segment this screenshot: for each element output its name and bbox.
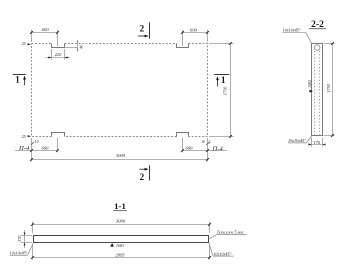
svg-text:25: 25: [22, 135, 26, 139]
svg-text:600: 600: [42, 27, 50, 32]
svg-text:220: 220: [55, 52, 62, 57]
section mark 1 right arrow: [217, 79, 219, 87]
dim 2995 line: [33, 257, 210, 259]
svg-text:10х10х45°: 10х10х45°: [283, 28, 301, 33]
section mark 1 left arrow: [24, 78, 26, 85]
svg-text:3000: 3000: [116, 219, 126, 224]
svg-text:1750: 1750: [223, 86, 228, 95]
section mark 2 bottom tick: [149, 165, 151, 180]
dim 600 bottom-left line: [15, 150, 58, 152]
svg-text:10: 10: [35, 140, 39, 144]
svg-text:1683: 1683: [116, 243, 124, 248]
svg-text:П-4: П-4: [212, 145, 224, 152]
svg-text:3000: 3000: [116, 153, 126, 158]
dim 40 notch depth: [65, 47, 78, 49]
dim 170 2-2 line: [308, 144, 326, 146]
section mark 2 top arrow: [138, 35, 146, 37]
svg-text:600: 600: [42, 145, 50, 150]
dim 600 bottom-right line: [183, 150, 228, 152]
dim 170 2-2 extension lines: [312, 138, 323, 147]
dim 600 top-left extension lines: [32, 30, 58, 47]
svg-text:40: 40: [80, 45, 84, 49]
dim 170 1-1 line: [24, 230, 26, 248]
dim 170 1-1 extension lines: [21, 236, 32, 243]
title 2-2 underline: [309, 28, 326, 30]
dim 600 top-right line: [183, 32, 208, 34]
plan top-left notch: [52, 44, 65, 48]
plan view panel outline (dashed): [32, 44, 208, 137]
section mark 2 bottom arrow: [139, 168, 146, 170]
section mark 1 right tick: [214, 74, 229, 76]
svg-text:600: 600: [186, 145, 194, 150]
svg-text:2: 2: [140, 23, 145, 33]
dim 3000 plan line: [32, 159, 208, 161]
svg-text:10х10х45°: 10х10х45°: [10, 250, 28, 255]
dim 3000 1-1 line: [33, 224, 210, 226]
svg-text:600: 600: [190, 28, 198, 33]
section 2-2 body: [312, 44, 323, 136]
mass mark 1683 in 2-2: [309, 90, 313, 93]
plan bottom-right notch: [177, 133, 189, 137]
dim 220 notch extension lines: [52, 49, 65, 60]
svg-text:10: 10: [201, 140, 205, 144]
dim 600 top-left line: [32, 32, 58, 34]
svg-text:1683: 1683: [307, 80, 312, 88]
svg-text:1: 1: [221, 75, 226, 85]
section 2-2 void circle: [314, 45, 320, 51]
svg-text:П-4: П-4: [18, 145, 30, 152]
dim 2995 extension lines: [33, 244, 210, 260]
dim 3000 1-1 extension lines: [33, 222, 210, 234]
dim 1750 2-2 line: [332, 44, 334, 136]
dim 600 top-right extension line: [183, 30, 208, 47]
plan bottom-left notch: [52, 133, 65, 137]
svg-text:170: 170: [313, 140, 320, 145]
mass mark 1683 in 1-1: [110, 243, 114, 246]
dim 1750 2-2 extension lines: [324, 44, 335, 136]
svg-text:1-1: 1-1: [114, 201, 126, 211]
svg-text:10х10х45°: 10х10х45°: [213, 251, 231, 256]
svg-text:2995: 2995: [115, 252, 125, 257]
section mark 1 left tick: [13, 74, 26, 76]
dim 220 line with outside arrows: [46, 57, 71, 59]
dim 1750 plan extension lines: [209, 44, 234, 137]
plan bottom extension lines: [32, 138, 208, 161]
svg-text:1750: 1750: [326, 83, 331, 92]
section 1-1 slab: [34, 236, 209, 243]
dim 1750 plan line: [230, 44, 232, 137]
section mark 2 top tick: [149, 22, 151, 38]
plan top-right notch: [177, 44, 189, 48]
section 2-2 hidden void lines: [315, 51, 320, 136]
svg-text:2: 2: [140, 172, 145, 182]
svg-text:Техн.слое 5 мм: Техн.слое 5 мм: [217, 229, 244, 234]
svg-text:1: 1: [15, 75, 20, 85]
svg-text:10х10х45°: 10х10х45°: [288, 138, 306, 143]
svg-text:170: 170: [17, 235, 22, 242]
title 1-1 underline: [113, 210, 127, 212]
svg-text:25: 25: [22, 42, 26, 46]
